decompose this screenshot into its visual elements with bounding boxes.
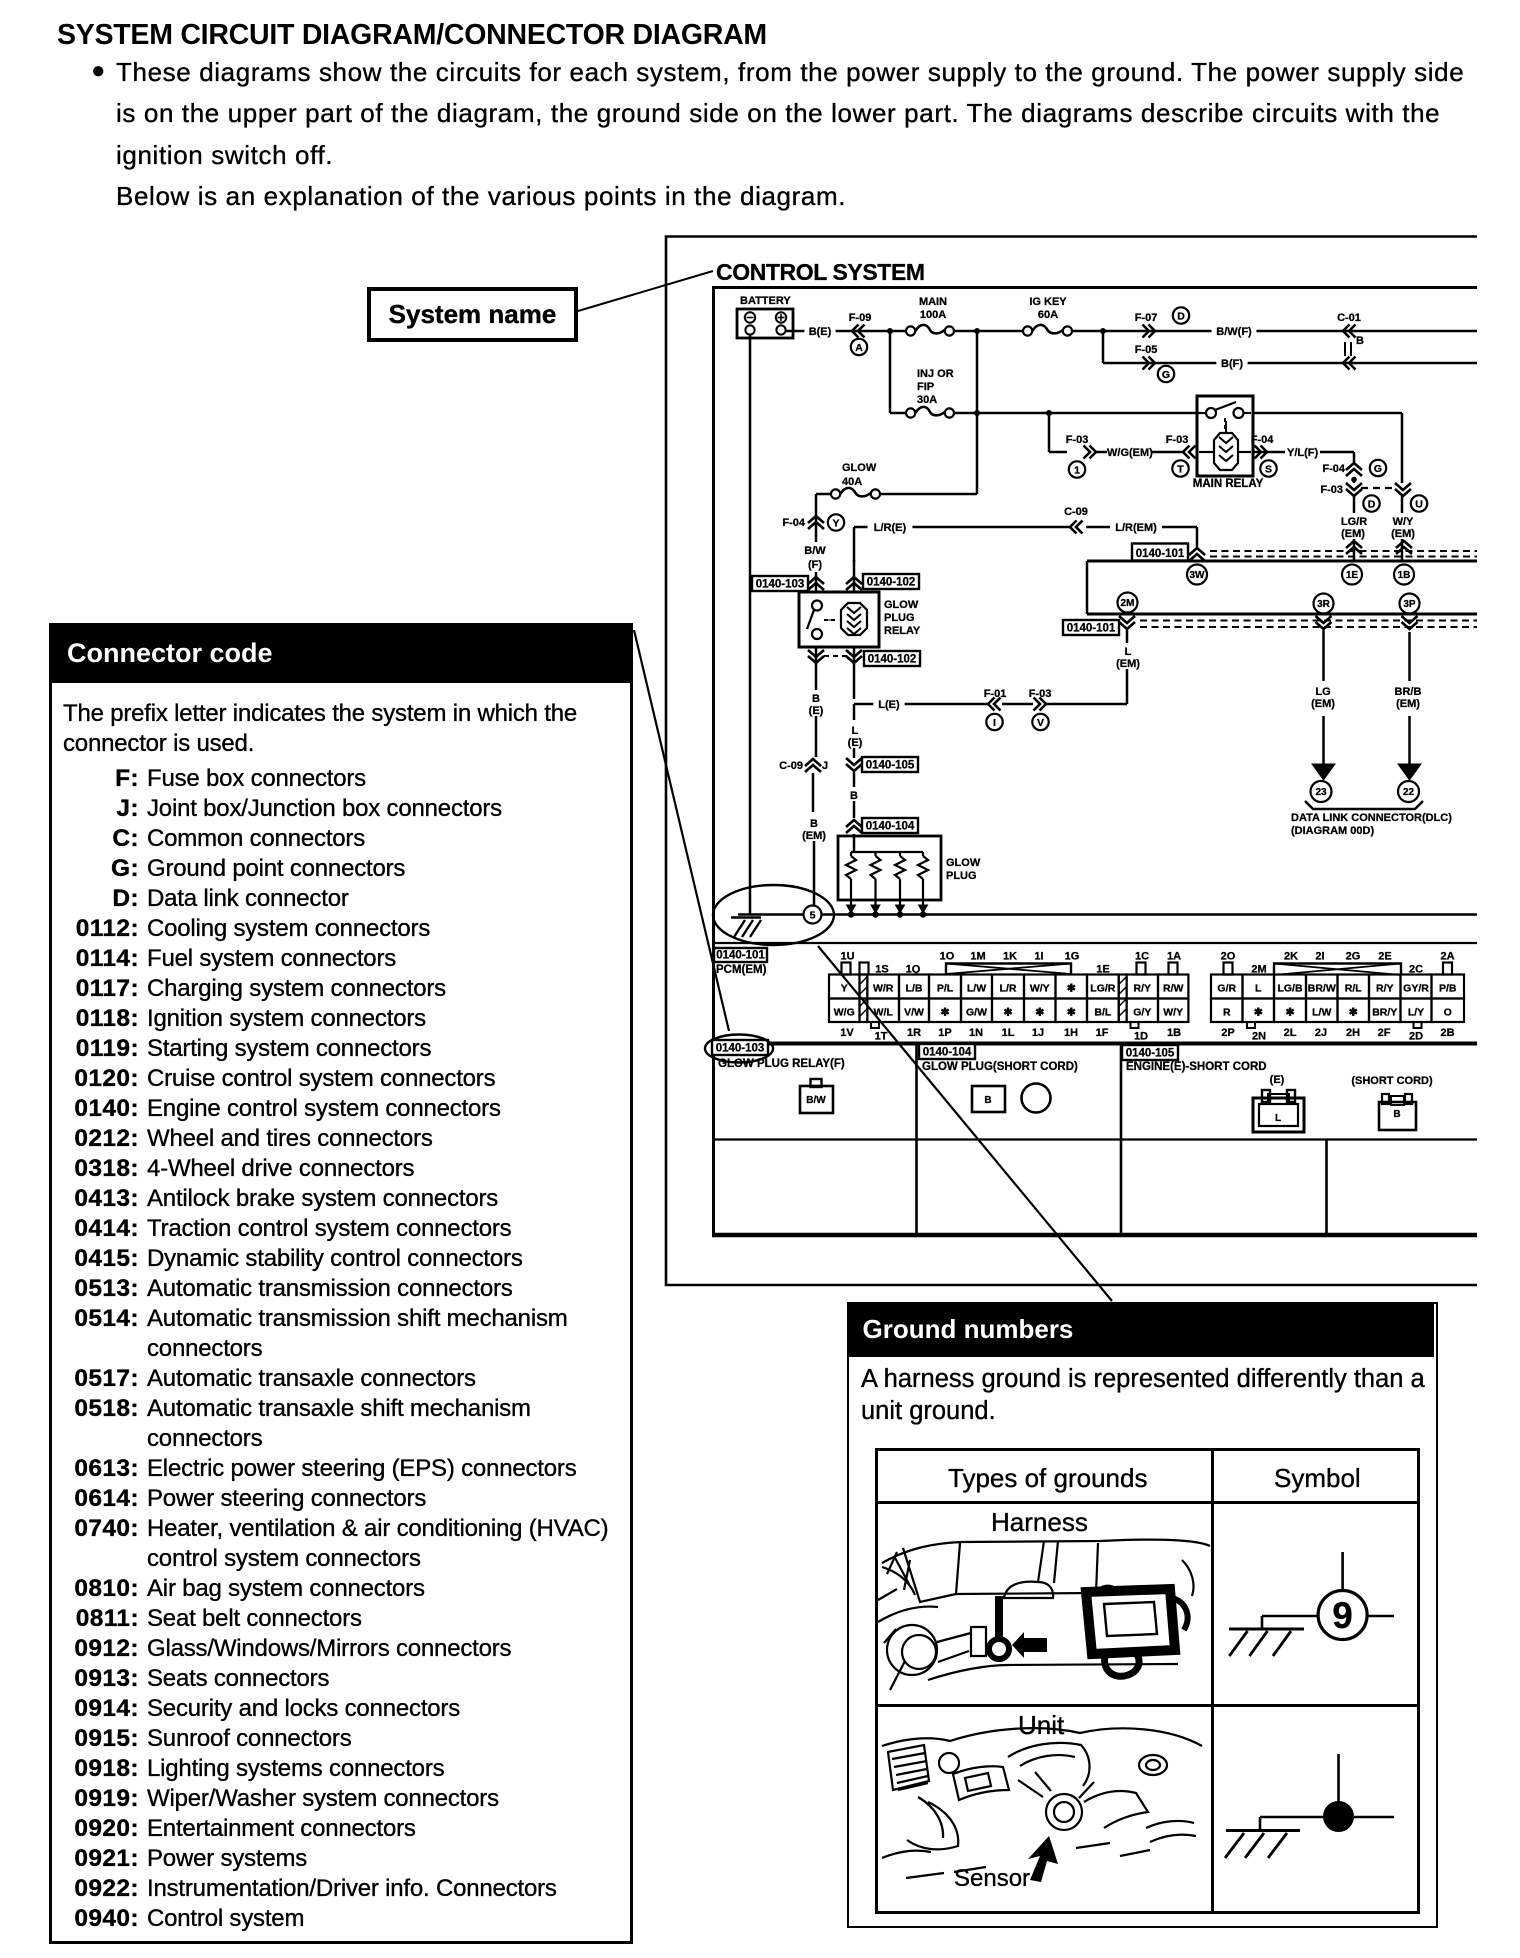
circle U terminal id xyxy=(1411,495,1427,511)
svg-text:F-04: F-04 xyxy=(1251,434,1275,446)
svg-text:A: A xyxy=(855,342,863,354)
connector 0140-104 chevron xyxy=(846,801,862,852)
svg-text:F-03: F-03 xyxy=(1166,434,1189,446)
svg-text:R/Y: R/Y xyxy=(1134,983,1152,995)
wire GLOW fuse to glow plug relay branch xyxy=(816,494,831,512)
svg-text:2F: 2F xyxy=(1378,1027,1391,1039)
svg-text:U: U xyxy=(1415,498,1423,510)
wire label B/W (F) xyxy=(803,542,827,571)
circle 5 ground id xyxy=(804,906,822,924)
svg-text:2D: 2D xyxy=(1409,1031,1423,1043)
connector 0140-102 chevron top of relay coil xyxy=(846,560,862,592)
svg-text:F-03: F-03 xyxy=(1320,484,1343,496)
svg-text:30A: 30A xyxy=(917,394,937,406)
svg-text:F-01: F-01 xyxy=(984,688,1007,700)
svg-text:L/R(E): L/R(E) xyxy=(874,522,907,534)
svg-text:G: G xyxy=(1374,463,1382,475)
PCM bracket 2K-2E with cross xyxy=(1274,964,1401,976)
svg-text:PLUG: PLUG xyxy=(946,870,977,882)
svg-text:F-03: F-03 xyxy=(1029,688,1052,700)
svg-text:L: L xyxy=(1275,1113,1281,1124)
svg-text:BATTERY: BATTERY xyxy=(740,295,791,307)
PCM bus 2 solid wire xyxy=(1087,613,1477,616)
svg-text:✱: ✱ xyxy=(1286,1007,1295,1019)
PCM bus 2 dashed pair xyxy=(1140,621,1477,628)
connector 0140-104 label box xyxy=(862,818,918,833)
connector 0140-105 label box xyxy=(862,757,918,772)
glow plug relay box xyxy=(799,592,879,647)
svg-text:ENGINE(E)-SHORT CORD: ENGINE(E)-SHORT CORD xyxy=(1126,1061,1267,1073)
svg-text:2B: 2B xyxy=(1440,1027,1454,1039)
relay switch contacts xyxy=(807,601,836,640)
svg-text:1S: 1S xyxy=(875,964,888,976)
svg-text:0140-105: 0140-105 xyxy=(866,760,915,772)
harness ground photo sketch xyxy=(878,1540,1210,1690)
svg-text:L/R: L/R xyxy=(1000,983,1017,995)
ground numbers intro text xyxy=(861,1363,1433,1427)
circle V terminal id xyxy=(1032,714,1048,730)
connector 0140-101 label box PCM xyxy=(714,948,767,962)
svg-text:2M: 2M xyxy=(1251,964,1266,976)
svg-text:0140-102: 0140-102 xyxy=(867,577,916,589)
circle D2 terminal id xyxy=(1363,495,1379,511)
PCM bus 1 dashed pair xyxy=(1210,551,1477,557)
wire label W/G(EM) xyxy=(1107,447,1153,459)
svg-text:✱: ✱ xyxy=(1067,1007,1076,1019)
PCM top pin number labels xyxy=(840,951,1454,976)
node L/R(E) label xyxy=(868,519,913,534)
svg-text:0140-104: 0140-104 xyxy=(923,1047,972,1059)
svg-text:FIP: FIP xyxy=(917,381,934,393)
svg-text:5: 5 xyxy=(810,909,816,921)
wire 3R down to DLC 23 xyxy=(1322,630,1325,764)
connector code list xyxy=(52,765,630,1935)
svg-text:G/Y: G/Y xyxy=(1133,1007,1151,1019)
svg-text:B/L: B/L xyxy=(1094,1007,1112,1019)
circle 3P pin id xyxy=(1400,594,1420,614)
svg-text:W/L: W/L xyxy=(874,1007,894,1019)
svg-text:3R: 3R xyxy=(1317,599,1331,610)
wire label B (E) xyxy=(804,690,828,717)
svg-text:V: V xyxy=(1037,717,1044,729)
bullet dot xyxy=(91,57,106,85)
svg-text:0140-101: 0140-101 xyxy=(1136,548,1185,560)
circle S terminal id xyxy=(1260,460,1276,476)
unit ground symbol with solid dot xyxy=(1225,1754,1394,1858)
svg-text:L(E): L(E) xyxy=(878,699,900,711)
connector F-03 arrow on L(E) xyxy=(1029,688,1052,711)
svg-text:1V: 1V xyxy=(840,1027,854,1039)
description paragraph xyxy=(116,52,1496,217)
main relay box xyxy=(1197,396,1253,476)
svg-text:B/W: B/W xyxy=(806,1095,826,1106)
svg-text:0140-101: 0140-101 xyxy=(1067,623,1116,635)
wire label BR/B (EM) xyxy=(1392,683,1423,710)
CONTROL SYSTEM diagram title xyxy=(716,259,925,285)
connector F-03 chevron down-pair xyxy=(1320,483,1362,513)
wire to harness ground 5 xyxy=(813,841,816,906)
engine (E) short cord panel label xyxy=(1126,1061,1267,1073)
svg-text:(SHORT CORD): (SHORT CORD) xyxy=(1351,1075,1433,1087)
wire IG KEY branch down to F-05 row xyxy=(1103,331,1477,363)
svg-text:0140-103: 0140-103 xyxy=(756,579,805,591)
svg-text:L/R(EM): L/R(EM) xyxy=(1115,522,1157,534)
svg-text:0140-101: 0140-101 xyxy=(716,950,765,962)
svg-text:2C: 2C xyxy=(1409,964,1423,976)
junction node after IG KEY fuse xyxy=(1100,328,1106,334)
connector icon B short cord xyxy=(1379,1094,1416,1130)
connector 0140-102 chevrons below relay xyxy=(808,647,862,699)
wire label B (EM) xyxy=(798,815,829,842)
svg-text:R/W: R/W xyxy=(1163,983,1184,995)
circle 1 terminal id xyxy=(1069,461,1085,477)
svg-text:P/B: P/B xyxy=(1439,983,1457,995)
Ground numbers panel xyxy=(847,1302,1438,1928)
svg-text:(EM): (EM) xyxy=(1116,658,1140,670)
svg-text:GLOW PLUG RELAY(F): GLOW PLUG RELAY(F) xyxy=(718,1058,845,1070)
connector icon B xyxy=(972,1086,1005,1112)
lower panel divider 0140-104/105 xyxy=(1120,1043,1123,1235)
svg-text:1J: 1J xyxy=(1032,1027,1044,1039)
svg-text:(E): (E) xyxy=(809,705,824,717)
svg-text:L/Y: L/Y xyxy=(1408,1007,1424,1019)
svg-text:60A: 60A xyxy=(1038,309,1058,321)
connector 0140-105 label box xyxy=(1122,1045,1178,1060)
svg-text:C-09: C-09 xyxy=(779,760,803,772)
connector 0140-103 chevron into glow plug relay xyxy=(808,572,824,592)
wire INJ fuse to MAIN RELAY switch xyxy=(954,412,1199,415)
svg-text:0140-105: 0140-105 xyxy=(1126,1048,1175,1060)
svg-text:22: 22 xyxy=(1403,787,1415,798)
connector icon B/W xyxy=(800,1079,833,1113)
svg-text:F-04: F-04 xyxy=(1322,463,1346,475)
connector 0140-102 label box bottom xyxy=(864,651,920,666)
PCM connector pin grid xyxy=(829,975,1464,1023)
svg-text:(EM): (EM) xyxy=(802,830,826,842)
connector C-01 arrow bottom xyxy=(1343,357,1356,370)
svg-text:MAIN: MAIN xyxy=(919,296,947,308)
svg-text:(DIAGRAM 00D): (DIAGRAM 00D) xyxy=(1291,825,1374,837)
harness ground symbol with circle 9 xyxy=(1229,1552,1394,1656)
fuse INJ OR FIP 30A xyxy=(906,368,954,418)
svg-text:CONTROL SYSTEM: CONTROL SYSTEM xyxy=(716,259,925,285)
svg-text:1U: 1U xyxy=(840,951,854,963)
svg-text:L/B: L/B xyxy=(906,983,923,995)
wire IG KEY fuse to right edge (B/W(F) feed) xyxy=(1072,330,1477,333)
PCM section top line xyxy=(714,942,1478,944)
svg-text:3W: 3W xyxy=(1190,570,1206,581)
main relay switch xyxy=(1199,402,1251,432)
wire battery negative lead to ground xyxy=(749,334,752,915)
junction node W/G branch xyxy=(1046,410,1052,416)
glow plug relay name label xyxy=(884,599,921,637)
svg-text:(EM): (EM) xyxy=(1311,698,1335,710)
wire 2M down to L(EM) xyxy=(1126,630,1129,643)
svg-text:R/Y: R/Y xyxy=(1376,983,1394,995)
svg-text:GLOW: GLOW xyxy=(884,599,919,611)
wire label B(F) xyxy=(1216,355,1247,370)
wire L/R down to 3W xyxy=(1196,527,1199,548)
svg-text:G: G xyxy=(1162,369,1170,381)
svg-text:D: D xyxy=(1177,310,1185,322)
svg-text:GLOW: GLOW xyxy=(946,857,981,869)
arrow into DLC pin 23 xyxy=(1312,764,1335,780)
svg-text:Y: Y xyxy=(832,517,839,529)
svg-text:2O: 2O xyxy=(1221,951,1236,963)
svg-text:1Q: 1Q xyxy=(906,964,921,976)
svg-text:1B: 1B xyxy=(1167,1027,1181,1039)
relay coil symbol xyxy=(841,603,867,635)
svg-text:GLOW: GLOW xyxy=(842,462,877,474)
main relay name label xyxy=(1193,478,1264,490)
svg-text:INJ OR: INJ OR xyxy=(917,368,954,380)
wire label LG/R (EM) xyxy=(1337,513,1369,540)
circle G2 terminal id xyxy=(1370,460,1386,476)
wire L/R(E) from relay coil top xyxy=(854,527,1197,562)
svg-text:C-01: C-01 xyxy=(1337,312,1361,324)
svg-text:DATA LINK CONNECTOR(DLC): DATA LINK CONNECTOR(DLC) xyxy=(1291,812,1452,824)
svg-text:2G: 2G xyxy=(1346,951,1361,963)
svg-text:1G: 1G xyxy=(1065,951,1080,963)
wire relay output down W/Y xyxy=(1401,413,1404,483)
lower panel top line xyxy=(714,1042,1478,1046)
connector F-04 arrow from relay xyxy=(1251,434,1275,459)
svg-text:W/R: W/R xyxy=(873,983,894,995)
connector chevron 2M out of PCM xyxy=(1119,616,1135,629)
svg-text:✱: ✱ xyxy=(1067,983,1076,995)
svg-text:MAIN RELAY: MAIN RELAY xyxy=(1193,478,1264,490)
lower panel mid horizontal divider xyxy=(714,1138,1478,1140)
wire 3P down to DLC 22 xyxy=(1408,632,1411,764)
connector C-09 arrow xyxy=(1064,506,1088,534)
svg-text:PCM(EM): PCM(EM) xyxy=(716,964,767,976)
connector code header bar xyxy=(52,626,630,683)
svg-text:V/W: V/W xyxy=(904,1007,924,1019)
connector chevron LG/R into PCM xyxy=(1346,541,1362,554)
wire LG/R to PCM bus xyxy=(1353,539,1356,561)
svg-text:W/G: W/G xyxy=(834,1007,855,1019)
svg-text:BR/Y: BR/Y xyxy=(1372,1007,1397,1019)
connector C-01 arrow top xyxy=(1337,312,1364,347)
wire bus1 to bus2 link xyxy=(1086,561,1089,614)
svg-text:1A: 1A xyxy=(1167,951,1181,963)
svg-text:B: B xyxy=(984,1095,991,1106)
svg-text:G/W: G/W xyxy=(966,1007,987,1019)
connector 0140-101 label box on bus 2 xyxy=(1063,620,1119,635)
ground bus wire xyxy=(738,913,1477,916)
svg-text:F-05: F-05 xyxy=(1135,344,1158,356)
connector chevron W/Y into PCM xyxy=(1396,541,1412,554)
svg-text:✱: ✱ xyxy=(941,1007,950,1019)
connector 0140-105 chevron xyxy=(846,748,862,787)
connector 0140-104 label box xyxy=(919,1044,975,1059)
connector 0140-102 label box top xyxy=(863,574,919,589)
svg-text:F-03: F-03 xyxy=(1066,434,1089,446)
wire label B xyxy=(849,787,860,802)
wire label W/Y (EM) xyxy=(1387,513,1418,540)
svg-text:1: 1 xyxy=(1074,464,1080,476)
svg-text:1P: 1P xyxy=(938,1027,951,1039)
wire relay switch output to W/Y branch xyxy=(1253,412,1402,415)
svg-text:R/L: R/L xyxy=(1345,983,1363,995)
svg-text:2P: 2P xyxy=(1221,1027,1234,1039)
label (E) xyxy=(1270,1074,1285,1086)
svg-text:1L: 1L xyxy=(1002,1027,1015,1039)
wire leader line from System name box to CONTROL SYSTEM title xyxy=(578,271,713,311)
svg-text:W/G(EM): W/G(EM) xyxy=(1107,447,1153,459)
svg-text:R: R xyxy=(1223,1007,1231,1019)
wire label LG (EM) xyxy=(1307,683,1338,710)
node B(E) label xyxy=(804,323,835,338)
svg-text:D: D xyxy=(1368,498,1376,510)
svg-text:P/L: P/L xyxy=(937,983,954,995)
svg-text:2I: 2I xyxy=(1315,951,1324,963)
svg-text:S: S xyxy=(1265,463,1272,475)
svg-text:1F: 1F xyxy=(1096,1027,1109,1039)
connector F-03 chevron on W/Y xyxy=(1395,483,1411,513)
svg-text:1E: 1E xyxy=(1096,964,1109,976)
connector chevron 3W into PCM xyxy=(1189,548,1205,561)
svg-text:1K: 1K xyxy=(1003,951,1017,963)
svg-text:1N: 1N xyxy=(969,1027,983,1039)
svg-text:2N: 2N xyxy=(1252,1031,1266,1043)
connector chevron 3R out of PCM xyxy=(1316,616,1332,629)
diagram inner frame box (CONTROL SYSTEM sheet) xyxy=(712,288,1477,1236)
svg-text:(E): (E) xyxy=(1270,1074,1285,1086)
types of grounds table xyxy=(875,1448,1420,1914)
circle T terminal id xyxy=(1172,460,1188,476)
wire label B/W(F) xyxy=(1212,323,1257,338)
PCM bus 1 solid wire xyxy=(1087,560,1477,563)
circle 23 DLC pin id xyxy=(1311,781,1332,802)
svg-text:1C: 1C xyxy=(1135,951,1149,963)
wire L(E) horizontal to 2M branch xyxy=(854,703,1127,706)
glow plug name label xyxy=(946,857,981,882)
connector code intro text xyxy=(63,699,623,759)
svg-text:RELAY: RELAY xyxy=(884,625,921,637)
svg-text:W/Y: W/Y xyxy=(1163,1007,1183,1019)
svg-text:0140-102: 0140-102 xyxy=(868,654,917,666)
fuse IG KEY 60A xyxy=(1023,296,1072,336)
connector F-03 arrow into main relay xyxy=(1166,434,1196,459)
PCM(EM) label xyxy=(716,964,767,976)
svg-text:T: T xyxy=(1177,463,1184,475)
page heading xyxy=(57,19,767,52)
svg-text:PLUG: PLUG xyxy=(884,612,915,624)
circle 2M pin id xyxy=(1118,593,1138,613)
PCM top pin stubs xyxy=(842,963,1453,975)
svg-text:0140-103: 0140-103 xyxy=(716,1043,765,1055)
ground callout ellipse xyxy=(713,885,834,945)
svg-text:F-09: F-09 xyxy=(849,312,872,324)
svg-text:1B: 1B xyxy=(1398,570,1411,581)
svg-text:1O: 1O xyxy=(940,951,955,963)
wire label L/R(EM) xyxy=(1110,519,1162,534)
svg-text:23: 23 xyxy=(1315,787,1327,798)
svg-text:40A: 40A xyxy=(842,476,862,488)
svg-text:1M: 1M xyxy=(970,951,985,963)
svg-text:1I: 1I xyxy=(1034,951,1043,963)
svg-text:F-04: F-04 xyxy=(782,517,806,529)
wire label Y/L(F) xyxy=(1253,447,1354,459)
svg-text:3P: 3P xyxy=(1403,599,1416,610)
connector F-01 arrow xyxy=(984,688,1007,711)
svg-text:0140-104: 0140-104 xyxy=(866,821,915,833)
connector F-07 arrow xyxy=(1135,312,1158,338)
wire dashed F-03 link xyxy=(1361,487,1396,489)
circle 1E pin id xyxy=(1342,565,1362,585)
fuse MAIN 100A xyxy=(906,296,954,336)
wire label L (E) vertical xyxy=(843,722,867,749)
svg-text:BR/W: BR/W xyxy=(1308,983,1336,995)
glow plug relay (F) panel label xyxy=(718,1058,845,1070)
svg-text:✱: ✱ xyxy=(1349,1007,1358,1019)
svg-text:(E): (E) xyxy=(848,737,863,749)
ground numbers header bar xyxy=(847,1302,1434,1357)
svg-text:B: B xyxy=(1356,335,1364,347)
svg-text:J: J xyxy=(822,760,828,772)
circle 3W pin id xyxy=(1187,565,1207,585)
circle Y terminal id xyxy=(828,514,844,530)
svg-text:W/Y: W/Y xyxy=(1030,983,1050,995)
wire W/Y to PCM bus xyxy=(1401,539,1404,561)
svg-text:B: B xyxy=(850,790,858,802)
connector 0140-101 label box on bus 1 xyxy=(1132,544,1188,561)
battery B+ terminal label xyxy=(740,295,791,307)
svg-text:2L: 2L xyxy=(1284,1027,1297,1039)
circle 3R pin id xyxy=(1314,594,1334,614)
label (SHORT CORD) xyxy=(1351,1075,1433,1087)
svg-text:(EM): (EM) xyxy=(1391,528,1415,540)
connector C-09 J chevron xyxy=(779,759,828,812)
glow plug resistor bank xyxy=(838,836,941,918)
DLC bracket xyxy=(1305,801,1423,809)
battery xyxy=(737,309,793,338)
wire branch down to INJ OR FIP fuse xyxy=(890,331,906,413)
svg-text:B(E): B(E) xyxy=(809,326,832,338)
svg-text:1H: 1H xyxy=(1064,1027,1078,1039)
main relay coil xyxy=(1199,421,1251,470)
wire relay left pin to C-09 xyxy=(815,716,818,757)
svg-text:GLOW PLUG(SHORT CORD): GLOW PLUG(SHORT CORD) xyxy=(922,1061,1078,1073)
connector F-04 chevron up-pair xyxy=(1322,463,1362,476)
svg-text:1T: 1T xyxy=(875,1031,888,1043)
svg-text:2E: 2E xyxy=(1378,951,1391,963)
svg-text:2K: 2K xyxy=(1284,951,1298,963)
PCM bottom pin stubs xyxy=(871,1022,1422,1028)
circle 22 DLC pin id xyxy=(1398,781,1419,802)
svg-text:1D: 1D xyxy=(1134,1031,1148,1043)
svg-text:2J: 2J xyxy=(1315,1027,1327,1039)
connector F-03 arrow to PCM xyxy=(1066,434,1096,459)
arrow into DLC pin 22 xyxy=(1398,764,1421,780)
lower panel divider right segment xyxy=(1325,1140,1328,1236)
circle I terminal id xyxy=(986,714,1002,730)
svg-text:100A: 100A xyxy=(920,309,946,321)
svg-text:9: 9 xyxy=(1332,1595,1353,1636)
svg-text:Y: Y xyxy=(841,983,848,995)
svg-text:L: L xyxy=(1255,983,1262,995)
svg-text:B/W: B/W xyxy=(804,545,826,557)
junction node before MAIN fuse xyxy=(887,328,893,334)
svg-text:C-09: C-09 xyxy=(1064,506,1088,518)
wire label L (EM) xyxy=(1112,643,1143,670)
wire MAIN fuse to IG KEY fuse xyxy=(954,330,1023,333)
svg-text:✱: ✱ xyxy=(1004,1007,1013,1019)
circle D terminal id xyxy=(1173,307,1189,323)
connector icon E xyxy=(1253,1090,1304,1132)
svg-text:G/R: G/R xyxy=(1217,983,1236,995)
